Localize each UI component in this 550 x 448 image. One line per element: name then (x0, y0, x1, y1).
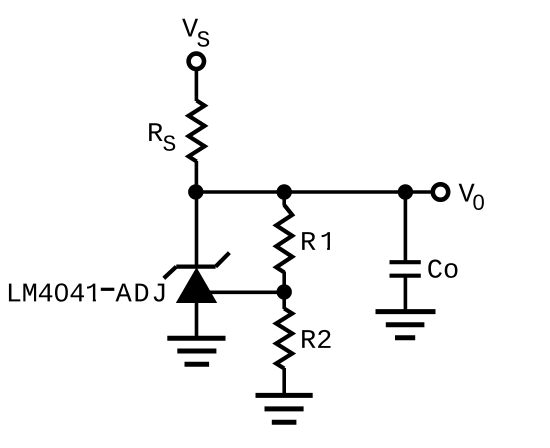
zener U1 cathode left tail (164, 267, 177, 279)
node VO label (459, 184, 484, 210)
zener diode U1 cathode bar (176, 265, 215, 269)
wire ADJ pin to R1/R2 junction (200, 290, 284, 294)
label RS (149, 123, 175, 151)
ground (under zener) (167, 338, 225, 364)
ground (under R2) (256, 395, 313, 422)
wire main horizontal rail (node A to VO) (196, 190, 433, 194)
junction dot node B (R1 top) (277, 184, 292, 199)
junction dot node C (Co top) (398, 184, 413, 199)
wire node A down to zener cathode (195, 192, 199, 267)
zener U1 cathode right tail (216, 253, 230, 267)
resistor R1 (276, 196, 292, 288)
resistor RS (189, 101, 205, 162)
junction dot node D (R1/R2/ADJ) (277, 284, 292, 299)
terminal VS (open circle) (189, 54, 204, 69)
wire VS terminal to RS top (195, 71, 199, 102)
terminal VO (open circle) (433, 184, 448, 199)
junction dot node A (RS / diode) (188, 184, 203, 199)
wire RS bottom to node A (195, 161, 199, 192)
wire zener anode to ground (195, 302, 199, 338)
resistor R2 (276, 294, 292, 395)
capacitor Co (390, 262, 421, 276)
wire Co bottom to ground (404, 276, 408, 312)
node VS label (182, 19, 209, 47)
label LM4041-ADJ (9, 283, 164, 301)
wire node C down to Co (404, 192, 408, 261)
ground (under Co) (376, 312, 436, 338)
label Co (428, 260, 442, 278)
label R2 (302, 330, 315, 348)
zener U1 anode triangle (LM4041-ADJ) (176, 267, 217, 303)
label R1 (302, 232, 336, 251)
